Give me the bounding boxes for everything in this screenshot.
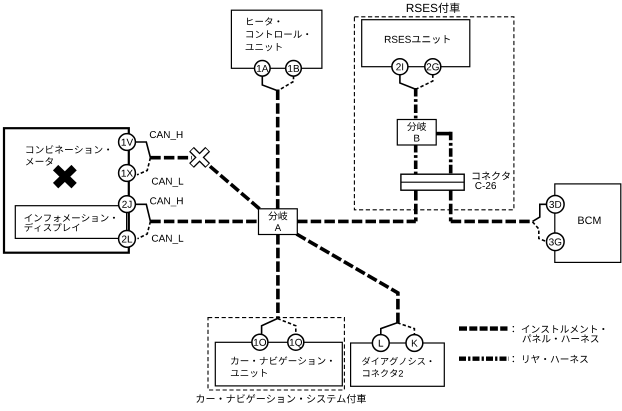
wire: bus from C-26 right pin to BCM junction <box>451 220 533 224</box>
pin 3D <box>547 196 565 214</box>
wire: meter connector link 1V-1X-2J-2L <box>126 142 128 239</box>
pin K <box>406 335 423 352</box>
wire: branch A bottom bus down to navi junction <box>276 234 280 318</box>
pin 2G <box>425 59 441 75</box>
wire: branch B right elbow down to C-26 (rear harness) <box>449 132 453 175</box>
wire: L pigtail (solid) <box>381 323 398 335</box>
label: RSES-equipped vehicles caption <box>407 3 460 13</box>
component: information display box <box>15 206 126 239</box>
wire: branch B bottom to C-26 (rear harness) <box>414 144 418 175</box>
wire: 1A pigtail (solid) <box>262 76 277 91</box>
marker: harness break X on CAN_H line <box>192 149 208 165</box>
pin 2J <box>119 196 136 213</box>
pin 1V <box>119 134 136 151</box>
label: CAN_L (2L) <box>152 235 183 244</box>
wire: K pigtail (dashed) <box>397 323 414 335</box>
pin 1Q <box>288 334 304 350</box>
component: RSES unit box <box>362 20 470 67</box>
pin 3G <box>547 233 565 251</box>
legend: instrument panel harness text <box>513 325 605 333</box>
pin 1X <box>119 165 136 182</box>
label: CAN_H (2J) <box>150 197 183 206</box>
wire: 1O pigtail (solid) <box>262 319 278 335</box>
wire: CAN bus from display junction to branch A left <box>150 220 259 224</box>
wire: branch B right elbow horizontal (solid) <box>436 132 451 136</box>
label: CAN_H (1V) <box>150 131 183 140</box>
pin 2I <box>392 59 408 75</box>
pin 1B <box>286 61 302 77</box>
wire: RSES junction down to branch B (rear harness) <box>414 88 418 120</box>
wire: BCM 3D pigtail (solid) <box>533 204 548 221</box>
component: heater control unit box <box>231 10 322 68</box>
wire: 2L pigtail CAN_L (dashed) <box>138 221 151 238</box>
label: connector C-26 name <box>473 172 510 181</box>
label: car navigation system caption <box>197 394 366 403</box>
wire: branch A right bus to connector C-26 left pin <box>297 220 416 224</box>
component: branch A box <box>259 209 298 235</box>
wire: heater drop bus (1A/1B junction down to branch A) <box>276 90 280 211</box>
legend: rear harness text <box>513 355 588 363</box>
wire: BCM 3G pigtail (dashed) <box>533 222 548 242</box>
component: diagnosis connector 2 box <box>351 343 445 386</box>
wire: 2J pigtail CAN_H (solid) <box>136 204 151 221</box>
marker: bold X (component crossed out) <box>56 168 75 186</box>
pin L <box>372 335 389 352</box>
legend: rear harness sample line <box>459 357 509 361</box>
component: connector C-26 symbol <box>401 174 464 190</box>
component: combination meter box <box>4 128 129 253</box>
wire: CAN_H bus from meter junction to break X <box>150 156 192 160</box>
component: car navigation unit box <box>215 342 342 386</box>
container: car navigation system dashed box <box>208 318 344 390</box>
wire: 2I pigtail (solid) <box>400 75 416 90</box>
container: RSES-equipped vehicles dashed box <box>354 17 514 210</box>
legend: instrument panel harness sample line <box>459 326 508 330</box>
wire: 1Q pigtail (dashed) <box>278 319 296 335</box>
wire: C-26 left pin lower segment <box>414 190 418 221</box>
pin 2L <box>119 231 136 248</box>
label: CAN_L (1X) <box>152 178 183 187</box>
wire: diagonal bus X to branch A top-left <box>200 157 262 210</box>
wire: branch A diagonal bus to diagnosis junction <box>297 234 398 323</box>
component: BCM box <box>555 184 621 263</box>
wire: 1X pigtail CAN_L (dashed) <box>137 158 150 175</box>
pin 1O <box>252 334 268 350</box>
wire: 1V pigtail CAN_H (solid) <box>136 142 151 158</box>
wire: 1B pigtail (dashed) <box>278 76 294 91</box>
component: branch B box <box>397 120 436 146</box>
pin 1A <box>254 61 270 77</box>
wire: C-26 right pin lower segment <box>449 190 453 221</box>
wire: 2G pigtail (dashed) <box>416 75 433 90</box>
